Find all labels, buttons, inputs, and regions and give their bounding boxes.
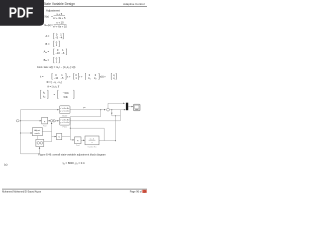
wire B2 to G1 — [44, 131, 56, 141]
junction dots — [20, 109, 116, 141]
svg-text:s² + 4s + 5: s² + 4s + 5 — [53, 16, 66, 20]
wire product1 to S2 — [48, 120, 51, 122]
svg-text:PDF: PDF — [9, 5, 34, 21]
svg-text:s: s — [92, 142, 93, 144]
wire plant row from bus — [21, 120, 42, 122]
block TF transfer function — [85, 136, 99, 148]
wire adj to S2 — [42, 122, 51, 131]
svg-text:Page 96 of: Page 96 of — [130, 191, 142, 194]
svg-text:x' = Ax+Bu: x' = Ax+Bu — [60, 119, 69, 122]
PDF badge — [0, 0, 44, 26]
arrowheads — [31, 103, 134, 149]
svg-text:Φ = [ −x₁ −x₂ ]: Φ = [ −x₁ −x₂ ] — [47, 81, 63, 84]
svg-text:Model: Model — [62, 115, 67, 117]
svg-text:−10: −10 — [54, 77, 59, 80]
block G1 — [57, 133, 62, 139]
wire plant out — [70, 116, 120, 121]
sum S2 — [50, 120, 52, 122]
block product2 — [75, 137, 82, 147]
mux — [126, 103, 128, 111]
wire r to model — [21, 109, 59, 111]
header rule — [2, 6, 147, 8]
svg-text:y = Cx+Du: y = Cx+Du — [60, 122, 69, 124]
svg-text:−10: −10 — [55, 51, 60, 55]
svg-text:Transfer Fcn: Transfer Fcn — [88, 146, 97, 148]
svg-text:q₁q₂: q₁q₂ — [63, 96, 68, 99]
svg-text:−4: −4 — [59, 35, 63, 39]
svg-text:k₁: k₁ — [43, 92, 45, 95]
footer rule — [2, 188, 147, 190]
wire top path to mux upper input — [108, 103, 125, 108]
svg-text:q: q — [113, 77, 115, 80]
svg-text:x' = Ax+Bu: x' = Ax+Bu — [60, 107, 69, 110]
wire S1 to mux — [110, 109, 126, 111]
svg-text:k₂: k₂ — [94, 77, 96, 80]
svg-text:Prod: Prod — [43, 125, 46, 127]
wire adj to B2 — [37, 136, 39, 140]
equation vector B — [46, 40, 60, 47]
wire bus to adj — [21, 132, 33, 134]
svg-text:k₁: k₁ — [88, 77, 90, 80]
error vertical down — [115, 116, 117, 141]
svg-text:Prod: Prod — [76, 145, 79, 147]
wire product2 to TF — [81, 139, 85, 141]
svg-text:s + 5: s + 5 — [56, 12, 62, 16]
svg-text:1: 1 — [75, 77, 77, 80]
left input bus — [21, 110, 40, 154]
svg-text:r +: r + — [80, 75, 84, 78]
svg-text:ym: ym — [83, 107, 86, 109]
wire model out to sum S1 — [70, 109, 106, 111]
svg-text:γ₁ = 8000, γ₂ = 0.4: γ₁ = 8000, γ₂ = 0.4 — [63, 161, 85, 165]
svg-text:−5: −5 — [61, 77, 64, 80]
block M1 reference model — [60, 106, 71, 118]
svg-text:Adaptive Control: Adaptive Control — [123, 2, 145, 6]
wire S2 to plant — [53, 120, 59, 122]
svg-text:θ = [ t₁ t₂ ]ᵀ: θ = [ t₁ t₂ ]ᵀ — [48, 85, 61, 88]
page highlight box — [142, 190, 146, 193]
wire mux to scope — [128, 106, 133, 108]
wire G1 to product2 — [62, 136, 71, 138]
input port r — [16, 120, 19, 122]
sum S1 — [107, 108, 110, 111]
equation matrix A — [46, 33, 64, 40]
svg-text:=: = — [54, 94, 56, 97]
svg-text:State Variable Design: State Variable Design — [43, 2, 75, 6]
svg-text:y = Cx+Du: y = Cx+Du — [60, 111, 69, 113]
svg-text:Plant: Plant — [63, 126, 68, 129]
block B2 — [36, 139, 44, 146]
block product1 — [42, 117, 48, 127]
svg-text:X(s): X(s) — [44, 14, 49, 18]
svg-text:−q₁q₂: −q₁q₂ — [63, 92, 69, 95]
block ADJ adjustment mechanism — [32, 128, 42, 136]
svg-text:Adjustment: Adjustment — [46, 8, 60, 12]
svg-text:x +: x + — [67, 75, 71, 78]
svg-text:1: 1 — [56, 43, 58, 47]
svg-text:B =: B = — [46, 42, 50, 46]
equation matrix Am — [44, 48, 67, 55]
wire mid tap — [70, 128, 104, 141]
column vector equation — [41, 90, 75, 99]
svg-text:ẋ =: ẋ = — [40, 75, 44, 78]
svg-text:s + 10: s + 10 — [56, 21, 64, 25]
svg-text:k₂: k₂ — [43, 96, 45, 99]
equation Gp(s) fraction — [44, 12, 66, 20]
equation vector Bm — [44, 57, 60, 64]
svg-text:Bₘ =: Bₘ = — [44, 58, 50, 62]
svg-text:Aₘ =: Aₘ = — [44, 50, 50, 54]
block P1 plant — [60, 118, 71, 129]
svg-text:Mohamed Mohamed El-Sayed Atyya: Mohamed Mohamed El-Sayed Atyya — [2, 191, 41, 194]
equation Gm(s) fraction — [44, 21, 67, 29]
scope — [134, 104, 141, 111]
svg-text:Figure 8.46: overall state-var: Figure 8.46: overall state-variable adju… — [38, 153, 106, 157]
gain triangle row2 — [54, 119, 57, 122]
svg-text:×: × — [77, 138, 79, 142]
control law line — [37, 65, 76, 69]
long state equation — [40, 73, 116, 79]
svg-text:A =: A = — [46, 34, 50, 38]
svg-text:x(t) +: x(t) + — [100, 75, 106, 78]
error branch box — [112, 110, 121, 116]
wire TF out — [99, 140, 116, 142]
svg-text:s² + 6s + 10: s² + 6s + 10 — [53, 25, 67, 29]
svg-text:(c): (c) — [4, 162, 8, 166]
svg-text:−6: −6 — [61, 51, 65, 55]
svg-text:Adjust.: Adjust. — [34, 129, 41, 132]
svg-text:Gₘ(s): Gₘ(s) — [44, 23, 51, 27]
svg-text:Cont. law: u(t) = m₁r −: Cont. law: u(t) = m₁r − [ k₁ k₂ ] x(t) — [37, 65, 76, 69]
svg-text:−5: −5 — [55, 35, 59, 39]
svg-text:1: 1 — [56, 59, 58, 63]
wire ym tap down — [70, 110, 100, 140]
svg-text:mech.: mech. — [35, 133, 41, 135]
